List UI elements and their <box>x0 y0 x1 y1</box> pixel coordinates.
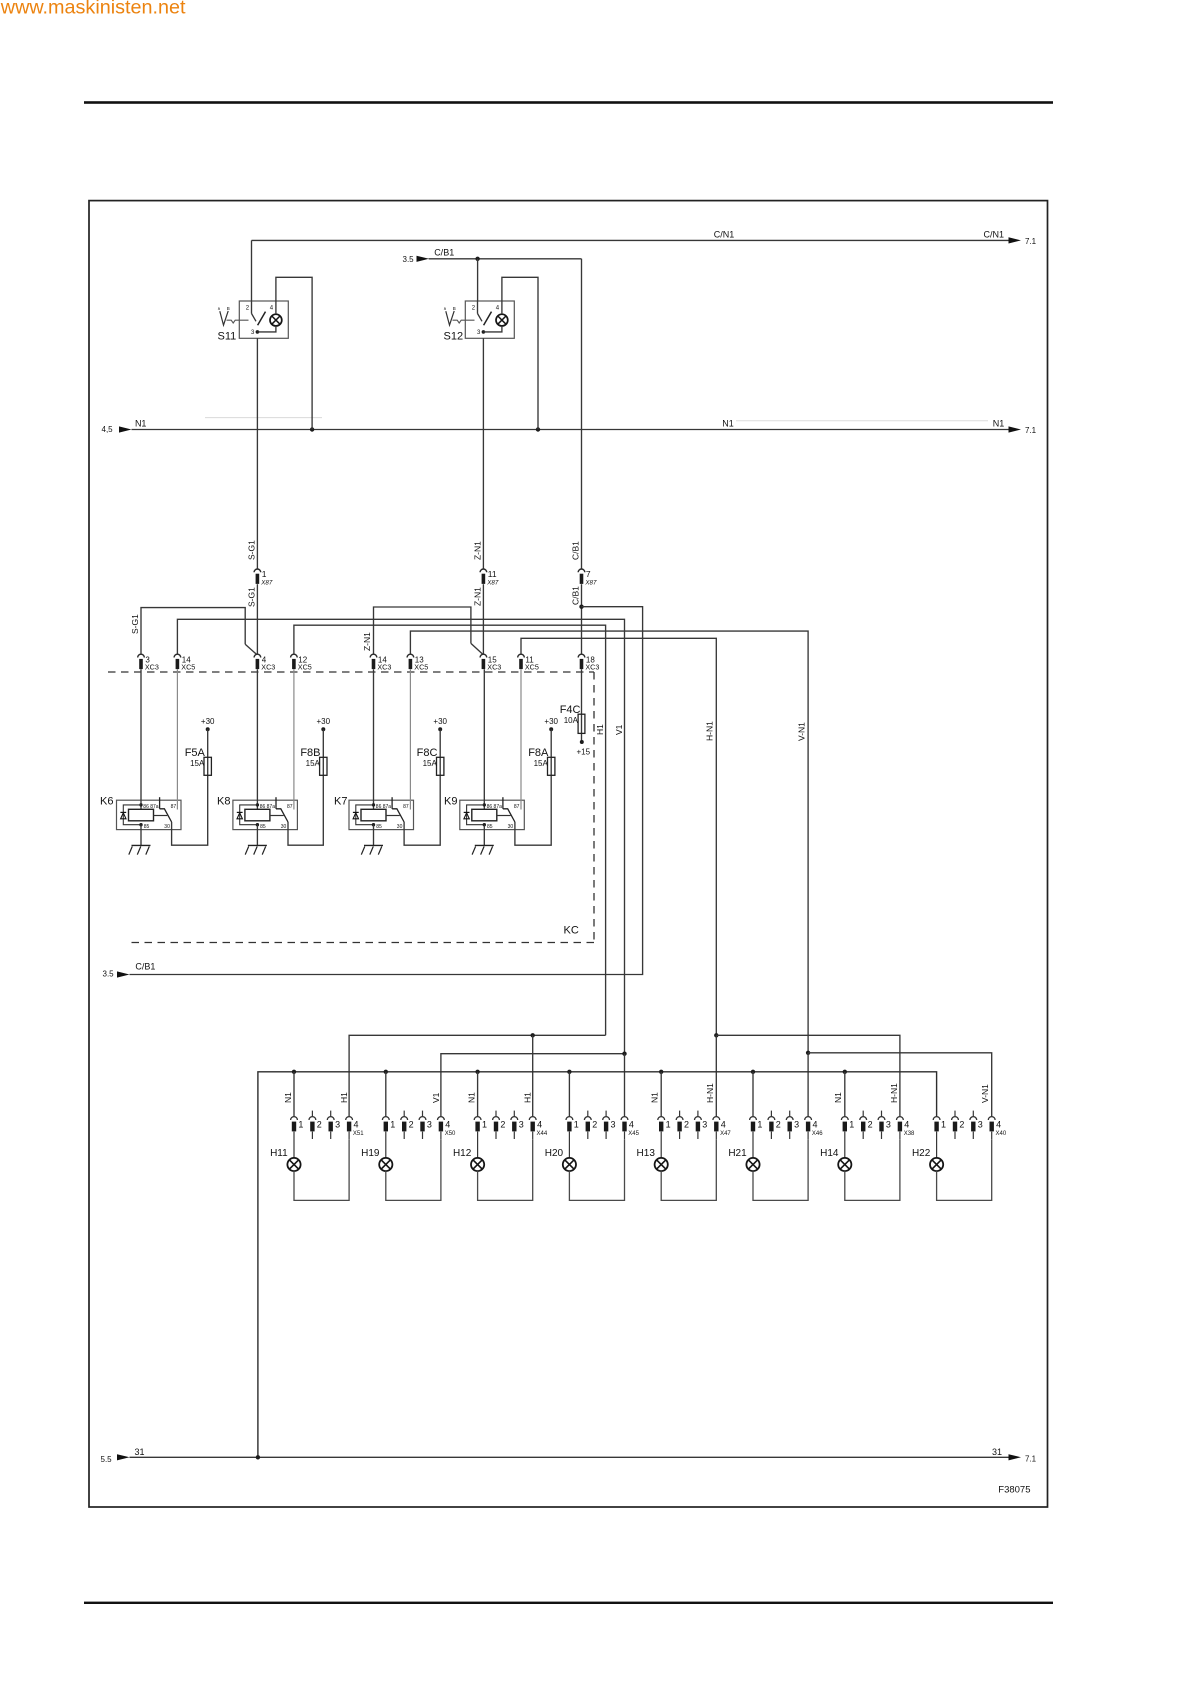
wire lamp H12 return <box>478 1139 533 1200</box>
svg-text:V1: V1 <box>614 724 624 735</box>
relay K6 contact 87a stub <box>159 797 161 809</box>
relay K9 coil junction 85 <box>483 823 486 826</box>
scan artifact line left <box>205 417 322 419</box>
junction H-N1 branch <box>714 1033 718 1037</box>
wire H-N1 branch to X38 <box>716 1035 900 1116</box>
relay K8 ground wire <box>256 825 258 846</box>
wire lamp H21 return <box>753 1139 808 1200</box>
wire C/B1 top horizontal <box>429 258 582 260</box>
relay K9 pin labels top <box>487 804 503 810</box>
switch S12 lamp circle <box>496 314 508 326</box>
connector XC5 pin 14 <box>174 654 195 671</box>
svg-text:H21: H21 <box>728 1148 747 1159</box>
wire lamp H13 feed <box>660 1132 662 1158</box>
svg-text:X38: X38 <box>904 1131 915 1137</box>
relay K9 label <box>444 795 457 807</box>
svg-text:+30: +30 <box>433 717 447 726</box>
connector X45 <box>566 1111 640 1139</box>
fuse F8A body <box>548 757 555 775</box>
connector X44 <box>474 1111 548 1139</box>
arrow 5.5 incoming <box>117 1454 130 1460</box>
label V-N1 upper <box>796 722 806 741</box>
lamp H21 <box>746 1158 759 1171</box>
wire S-G1 branch diagonal <box>245 644 256 654</box>
switch S12 box <box>465 301 514 338</box>
wire X44 pin4 stub <box>532 1132 534 1140</box>
wire lamp H21 feed <box>752 1132 754 1158</box>
wire lamp H22 return <box>937 1139 992 1200</box>
svg-text:15A: 15A <box>423 759 438 768</box>
svg-text:X87: X87 <box>260 579 273 586</box>
connector X50 <box>382 1111 456 1139</box>
label lamp H22 <box>912 1148 931 1159</box>
relay K9 ground symbol <box>472 845 494 854</box>
wire V1 bus <box>177 619 624 1053</box>
svg-text:15A: 15A <box>534 759 549 768</box>
label lamp H13 <box>637 1148 656 1159</box>
junction N1 bus lamp 5 <box>659 1070 663 1074</box>
relay K7 contact lever <box>392 809 404 822</box>
svg-text:4,5: 4,5 <box>102 425 114 434</box>
connector X46 <box>750 1111 824 1139</box>
watermark www.maskinisten.net <box>0 0 186 18</box>
svg-text:C/N1: C/N1 <box>714 230 735 240</box>
label S-G1 below X87 <box>247 587 257 607</box>
wire lamp H19 feed <box>385 1132 387 1158</box>
wire X87-1 to XC3-4 <box>256 584 258 654</box>
connector XC3 pin 3 <box>138 654 159 671</box>
fuse F5A rating <box>190 759 205 768</box>
relay K7 box <box>349 800 414 829</box>
wire N1 drop lamp 6 <box>752 1072 754 1117</box>
switch S12 contact <box>478 314 483 322</box>
label C/N1 right <box>984 230 1005 240</box>
wire N1 drop lamp 1 <box>293 1072 295 1117</box>
wire V-N1 bus <box>410 631 808 1053</box>
switch S12 pin3 junction <box>482 330 486 334</box>
wire lamp H12 feed <box>477 1132 479 1158</box>
label 7.1 at N1 <box>1025 426 1037 435</box>
wire H1 branch to lamps <box>349 1035 605 1116</box>
switch S11 contact <box>252 314 257 322</box>
wire lamp H20 feed <box>568 1132 570 1158</box>
svg-text:30: 30 <box>397 824 403 830</box>
bottom rule <box>84 1602 1053 1604</box>
fuse F8B body <box>320 757 327 775</box>
arrow 4,5 incoming <box>119 426 132 432</box>
lamp H11 <box>287 1158 300 1171</box>
relay K9 coil-lever link <box>497 815 511 817</box>
switch S11 pin2 wire <box>251 301 253 314</box>
relay K9 coil <box>472 809 497 821</box>
wire N1 drop lamp 7 <box>844 1072 846 1117</box>
svg-text:15A: 15A <box>306 759 321 768</box>
relay K7 coil junction 86 <box>372 803 375 806</box>
wire X51 pin4 stub <box>348 1132 350 1140</box>
svg-text:H22: H22 <box>912 1148 931 1159</box>
switch S11 actuator symbol <box>217 306 230 325</box>
junction N1 bus lamp 3 <box>475 1070 479 1074</box>
connector X40 <box>933 1111 1007 1139</box>
junction N1 descent to 31 <box>256 1455 260 1459</box>
wire V1 drop to X45 <box>624 1054 626 1117</box>
svg-text:S-G1: S-G1 <box>247 587 257 607</box>
svg-text:www.maskinisten.net: www.maskinisten.net <box>0 0 186 18</box>
svg-text:X87: X87 <box>486 579 499 586</box>
relay K6 pin 87 wire from connector <box>176 669 178 809</box>
relay K9 contact 87a stub <box>502 797 504 809</box>
label Z-N1 at XC3-14 <box>362 632 372 651</box>
relay K7 ground wire <box>373 825 375 846</box>
switch S12 pin3 label <box>477 330 481 336</box>
switch S12 pin2 label <box>472 306 476 312</box>
switch S12 lamp top wire <box>501 301 503 314</box>
connector XC3 pin 15 <box>480 654 501 671</box>
switch S11 lever <box>258 312 266 326</box>
svg-text:+15: +15 <box>577 747 591 756</box>
label S-G1 above X87 <box>247 540 257 560</box>
relay K7 ground symbol <box>361 845 383 854</box>
label V1 upper <box>614 724 624 735</box>
junction V1 branch <box>622 1052 626 1056</box>
fuse F8B label <box>300 747 320 759</box>
relay K8 coil <box>245 809 270 821</box>
fuse F8C rating <box>423 759 438 768</box>
label C/B1 top <box>434 247 454 257</box>
relay K7 coil <box>361 809 386 821</box>
junction S12 lamp to N1 <box>536 427 540 431</box>
switch S12 pin2 wire <box>477 301 479 314</box>
label V1 at lamp column <box>431 1092 441 1103</box>
switch S12 lamp bottom wire <box>483 326 502 332</box>
switch S12 lever <box>484 312 492 326</box>
label 7.1 at 31 <box>1025 1455 1037 1464</box>
wire C/B1 vertical to X87-7 <box>581 259 583 570</box>
connector X87 pin 11 <box>480 569 499 586</box>
relay K9 diode <box>464 812 470 818</box>
relay K7 pin30 wire to fuse <box>404 775 440 845</box>
svg-text:87: 87 <box>514 804 520 810</box>
label N1 at lamp column <box>283 1092 293 1103</box>
connector X87 pin 7 <box>578 569 597 586</box>
relay K7 diode <box>353 812 359 818</box>
KC unit boundary bottom <box>128 942 594 944</box>
wire H1 drop to X44 <box>532 1035 534 1116</box>
relay K8 contact lever <box>276 809 288 822</box>
label KC <box>564 925 579 937</box>
label 3.5 reference bottom <box>103 970 115 979</box>
relay K6 pin label 87 <box>171 804 177 810</box>
svg-text:7.1: 7.1 <box>1025 237 1037 246</box>
connector XC5 pin 13 <box>407 654 428 671</box>
lamp H22 <box>930 1158 943 1171</box>
switch S12 actuator symbol <box>443 306 456 325</box>
fuse F4C rating <box>564 716 579 725</box>
fuse F5A body <box>204 757 211 775</box>
svg-text:H1: H1 <box>339 1092 349 1103</box>
label 4,5 reference <box>102 425 114 434</box>
switch S11 pin3 label <box>251 330 255 336</box>
relay K8 pin 87 wire from connector <box>293 669 295 809</box>
wire +30 to F8A <box>550 729 552 775</box>
svg-text:X44: X44 <box>537 1131 548 1137</box>
lamp H19 <box>379 1158 392 1171</box>
svg-text:K7: K7 <box>334 795 347 807</box>
wire S12 lamp hook to N1 <box>502 277 538 429</box>
connector X38 <box>841 1111 915 1139</box>
svg-text:K8: K8 <box>217 795 230 807</box>
arrow N1 to 7.1 <box>1009 426 1022 432</box>
relay K6 coil-lever link <box>154 815 168 817</box>
svg-text:4: 4 <box>354 1119 359 1129</box>
relay K8 box <box>233 800 298 829</box>
junction N1 bus lamp 2 <box>384 1070 388 1074</box>
relay K9 coil junction 86 <box>483 803 486 806</box>
svg-text:H1: H1 <box>523 1092 533 1103</box>
relay K8 ground symbol <box>245 845 267 854</box>
switch S11 actuator link <box>227 320 249 323</box>
wire H1 bus <box>294 625 606 1035</box>
svg-text:2: 2 <box>500 1119 505 1129</box>
relay K8 coil-lever link <box>270 815 284 817</box>
svg-text:31: 31 <box>135 1447 145 1457</box>
svg-text:H11: H11 <box>270 1148 288 1159</box>
label N1 at lamp column <box>467 1092 477 1103</box>
relay K7 coil wire from connector <box>373 669 375 809</box>
label C/B1 below X87 <box>571 586 581 605</box>
fuse F8B rating <box>306 759 321 768</box>
label lamp H11 <box>270 1148 288 1159</box>
svg-text:S11: S11 <box>218 330 237 342</box>
relay K6 pin30 wire to fuse <box>172 775 208 845</box>
svg-text:7: 7 <box>586 569 591 579</box>
svg-text:4: 4 <box>445 1119 450 1129</box>
connector X47 <box>658 1111 732 1139</box>
relay K6 coil <box>129 809 154 821</box>
svg-text:2: 2 <box>592 1119 597 1129</box>
relay K7 pin label 87 <box>403 804 409 810</box>
fuse F8C body <box>437 757 444 775</box>
wire lamp H11 feed <box>293 1132 295 1158</box>
svg-text:4: 4 <box>537 1119 542 1129</box>
label H1 upper <box>595 724 605 735</box>
svg-text:H-N1: H-N1 <box>705 721 715 741</box>
wire H-N1 bus <box>521 638 716 1035</box>
svg-text:KC: KC <box>564 925 579 937</box>
svg-text:F8A: F8A <box>528 747 549 759</box>
terminal +30 for F8B <box>317 717 331 732</box>
lamp H14 <box>838 1158 851 1171</box>
wire X45 pin4 stub <box>624 1132 626 1140</box>
lamp H12 <box>471 1158 484 1171</box>
svg-text:1: 1 <box>482 1119 487 1129</box>
wire XC3-18 to F4C <box>581 669 583 742</box>
svg-text:2: 2 <box>409 1119 414 1129</box>
svg-text:3: 3 <box>978 1119 983 1129</box>
svg-text:4: 4 <box>904 1119 909 1129</box>
svg-text:X51: X51 <box>353 1131 364 1137</box>
wire +30 to F5A <box>207 729 209 775</box>
label Z-N1 above X87 <box>473 541 483 560</box>
junction S11 lamp to N1 <box>310 427 314 431</box>
svg-text:XC3: XC3 <box>487 663 501 672</box>
svg-text:H-N1: H-N1 <box>889 1083 899 1103</box>
wire S-G1 branch horizontal <box>141 608 245 655</box>
wire X40 pin4 stub <box>991 1132 993 1140</box>
svg-text:87: 87 <box>287 804 293 810</box>
lamp H20 <box>563 1158 576 1171</box>
relay K7 contact 87a stub <box>391 797 393 809</box>
svg-text:87: 87 <box>403 804 409 810</box>
svg-text:85: 85 <box>487 824 493 830</box>
fuse F8A label <box>528 747 549 759</box>
switch S11 lamp top wire <box>275 301 277 314</box>
svg-text:N1: N1 <box>135 419 147 429</box>
connector XC3 pin 4 <box>254 654 275 671</box>
terminal +30 for F8C <box>433 717 447 732</box>
relay K8 label <box>217 795 230 807</box>
relay K8 coil wire from connector <box>256 669 258 809</box>
svg-text:H1: H1 <box>595 724 605 735</box>
relay K8 pin30 wire to fuse <box>288 775 323 845</box>
relay K9 pin label 85 <box>487 824 493 830</box>
connector X51 <box>291 1111 365 1139</box>
wire N1 drop lamp 3 <box>477 1072 479 1117</box>
svg-text:X47: X47 <box>720 1131 731 1137</box>
svg-text:3: 3 <box>611 1119 616 1129</box>
wire lamp H14 feed <box>844 1132 846 1158</box>
terminal +30 for F5A <box>201 717 215 732</box>
label N1 left <box>135 419 147 429</box>
lamp H13 <box>655 1158 668 1171</box>
svg-text:N1: N1 <box>722 419 734 429</box>
relay K8 contact 87a stub <box>275 797 277 809</box>
svg-text:N1: N1 <box>833 1092 843 1103</box>
svg-text:2: 2 <box>776 1119 781 1129</box>
label lamp H21 <box>728 1148 747 1159</box>
relay K8 pin label 85 <box>260 824 266 830</box>
KC unit boundary right <box>593 672 595 943</box>
relay K6 coil junction 85 <box>139 823 142 826</box>
wire X47 pin4 stub <box>715 1132 717 1140</box>
connector XC3 pin 14 <box>370 654 391 671</box>
svg-text:XC5: XC5 <box>181 663 195 672</box>
junction N1 bus lamp 4 <box>567 1070 571 1074</box>
terminal +15 <box>577 740 591 756</box>
label 7.1 top <box>1025 237 1037 246</box>
relay K9 contact lever <box>503 809 515 822</box>
junction N1 bus lamp 1 <box>292 1070 296 1074</box>
svg-text:+30: +30 <box>317 717 331 726</box>
scan artifact line right <box>736 420 988 422</box>
svg-text:3: 3 <box>702 1119 707 1129</box>
arrow 3.5 incoming <box>417 256 430 262</box>
svg-text:3: 3 <box>519 1119 524 1129</box>
svg-text:2: 2 <box>868 1119 873 1129</box>
label H-N1 at lamp column <box>705 1083 715 1103</box>
junction C/B1 branch <box>579 605 583 609</box>
fuse F8A rating <box>534 759 549 768</box>
relay K6 coil wire from connector <box>140 669 142 809</box>
svg-text:1: 1 <box>262 569 267 579</box>
svg-text:1: 1 <box>941 1119 946 1129</box>
connector XC5 pin 12 <box>291 654 312 671</box>
svg-text:4: 4 <box>813 1119 818 1129</box>
wire S12 pin3 to X87-11 <box>482 338 484 569</box>
relay K6 ground wire <box>140 825 142 846</box>
relay K6 box <box>117 800 182 829</box>
relay K6 pin labels top <box>143 804 159 810</box>
junction V-N1 branch <box>806 1051 810 1055</box>
wire N1 horizontal <box>132 429 1009 431</box>
svg-text:7.1: 7.1 <box>1025 1455 1037 1464</box>
switch S11 lamp bottom wire <box>257 326 276 332</box>
wire lamp H20 return <box>569 1139 624 1200</box>
wire S11 pin2 to C/N1 <box>251 240 253 301</box>
wire N1 lamp bus <box>258 1072 937 1458</box>
relay K9 pin label 30 <box>508 824 514 830</box>
wire S12 pin2 to C/B1 <box>477 259 479 301</box>
relay K6 pin label 85 <box>144 824 150 830</box>
svg-text:1: 1 <box>390 1119 395 1129</box>
label H1 at lamp column <box>523 1092 533 1103</box>
svg-text:1: 1 <box>298 1119 303 1129</box>
svg-text:XC3: XC3 <box>377 663 391 672</box>
svg-text:K9: K9 <box>444 795 457 807</box>
arrow C/N1 to 7.1 <box>1009 237 1022 243</box>
wire X46 pin4 stub <box>807 1132 809 1140</box>
wire N1 drop lamp 5 <box>660 1072 662 1117</box>
wire C/B1 branch to lamps <box>130 607 643 975</box>
wire +30 to F8C <box>439 729 441 775</box>
junction H1 branch <box>531 1033 535 1037</box>
connector XC5 pin 11 <box>518 654 539 671</box>
svg-text:3: 3 <box>427 1119 432 1129</box>
label lamp H12 <box>453 1148 472 1159</box>
svg-text:V-N1: V-N1 <box>796 722 806 741</box>
svg-text:11: 11 <box>488 569 497 579</box>
wire lamp H14 return <box>845 1139 900 1200</box>
svg-text:F5A: F5A <box>185 747 206 759</box>
svg-text:3.5: 3.5 <box>403 255 415 264</box>
svg-text:S-G1: S-G1 <box>247 540 257 560</box>
wire Z-N1 branch diagonal <box>471 643 483 654</box>
relay K9 pin30 wire to fuse <box>515 775 551 845</box>
svg-text:X87: X87 <box>584 579 597 586</box>
relay K8 pin label 30 <box>281 824 287 830</box>
svg-text:87: 87 <box>171 804 177 810</box>
wire S11 lamp hook to N1 <box>276 277 312 429</box>
switch S12 pin4 label <box>496 306 500 312</box>
svg-text:H13: H13 <box>637 1148 656 1159</box>
switch S11 pin2 label <box>246 306 250 312</box>
svg-text:N1: N1 <box>993 419 1005 429</box>
label V-N1 at lamp column <box>980 1084 990 1103</box>
svg-text:10A: 10A <box>564 716 579 725</box>
relay K7 coil-lever link <box>386 815 400 817</box>
svg-text:C/N1: C/N1 <box>984 230 1005 240</box>
svg-text:+30: +30 <box>544 717 558 726</box>
label lamp H19 <box>361 1148 380 1159</box>
label lamp H20 <box>545 1148 564 1159</box>
svg-text:1: 1 <box>849 1119 854 1129</box>
svg-text:3: 3 <box>886 1119 891 1129</box>
arrow 3.5 incoming bottom <box>117 971 130 977</box>
wire S11 pin3 to X87-1 <box>256 338 258 569</box>
wire X50 pin4 stub <box>440 1132 442 1140</box>
svg-text:31: 31 <box>992 1447 1002 1457</box>
svg-text:4: 4 <box>996 1119 1001 1129</box>
